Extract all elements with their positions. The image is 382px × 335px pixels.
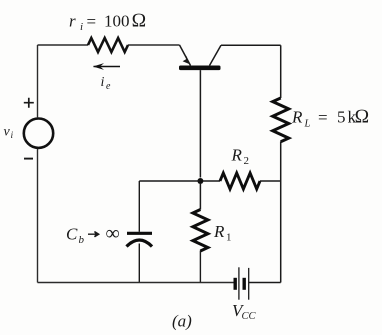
wire bottom rail left of battery (38, 282, 236, 284)
label - polarity (24, 158, 33, 160)
label (a) caption (172, 312, 192, 331)
wire R1 to bottom rail (199, 251, 201, 283)
wire bottom rail right of battery (249, 282, 281, 284)
node junction dot (base / R1 / R2 / Cb) (197, 178, 203, 184)
svg-text:1: 1 (226, 232, 232, 244)
label RL = 5 kohm (291, 107, 369, 130)
svg-text:R: R (231, 146, 243, 165)
resistor R2 horizontal zigzag (220, 173, 260, 189)
svg-text:2: 2 (244, 155, 250, 167)
svg-text:C: C (66, 225, 78, 244)
label ie (101, 75, 112, 92)
label ri = 100 ohm (69, 11, 146, 34)
svg-text:∞: ∞ (106, 223, 120, 245)
svg-text:L: L (304, 119, 311, 130)
battery VCC cell 2 short thick plate (242, 278, 245, 290)
svg-text:Ω: Ω (132, 11, 147, 32)
svg-text:v: v (4, 125, 11, 140)
label R1 (213, 222, 232, 244)
battery VCC cell 2 long thin plate (248, 268, 250, 300)
label R2 (231, 146, 250, 168)
wire node to R1 (199, 184, 201, 210)
transistor Q1 emitter line with arrow (PNP, arrow into base) (180, 45, 191, 66)
svg-text:=: = (318, 108, 328, 127)
resistor R1 vertical zigzag (193, 210, 208, 251)
svg-text:r: r (69, 12, 76, 31)
resistor ri (100 ohm) zigzag (88, 38, 128, 52)
wire right rail lower segment (280, 142, 282, 283)
svg-text:e: e (106, 81, 111, 92)
battery VCC cell 1 long thin plate (238, 267, 240, 299)
svg-text:(a): (a) (172, 312, 192, 331)
svg-text:i: i (80, 21, 83, 33)
wire top-right horizontal collector to right rail (221, 44, 281, 46)
resistor RL (5 kohm) vertical zigzag (273, 98, 289, 142)
svg-text:5: 5 (337, 108, 346, 127)
svg-text:Ω: Ω (355, 107, 370, 128)
wire right rail upper segment (280, 45, 282, 98)
label + polarity (24, 98, 34, 108)
battery VCC cell 1 short thick plate (233, 278, 236, 290)
svg-text:100: 100 (104, 12, 130, 31)
voltage source vi circle (24, 119, 53, 148)
svg-text:=: = (87, 12, 97, 31)
label VCC (232, 301, 257, 322)
svg-text:i: i (101, 75, 105, 90)
wire capacitor branch vertical upper (138, 181, 140, 232)
svg-text:b: b (79, 234, 85, 246)
wire from node to R2 (203, 180, 220, 182)
svg-text:i: i (11, 131, 14, 141)
wire from resistor ri to transistor emitter (128, 44, 180, 46)
capacitor Cb curved bottom plate (127, 240, 153, 247)
wire top-left horizontal from source to resistor ri (38, 44, 89, 46)
wire from R2 to right rail (260, 180, 281, 182)
svg-text:R: R (213, 222, 225, 241)
label Cb -> infinity (66, 223, 120, 247)
transistor Q1 base bar (179, 66, 221, 71)
label vi (4, 125, 14, 142)
wire left rail upper (source top to top-left corner) (37, 45, 39, 117)
wire from node to capacitor branch (horizontal) (139, 180, 200, 182)
wire capacitor branch vertical lower (138, 244, 140, 283)
transistor Q1 collector line (210, 45, 222, 65)
capacitor Cb top plate (127, 232, 152, 235)
transistor Q1 base lead (vertical) (199, 70, 201, 177)
current arrow ie (93, 63, 120, 70)
svg-text:CC: CC (242, 311, 257, 322)
svg-text:R: R (291, 108, 303, 127)
wire left rail lower (source bottom to bottom rail) (37, 149, 39, 283)
